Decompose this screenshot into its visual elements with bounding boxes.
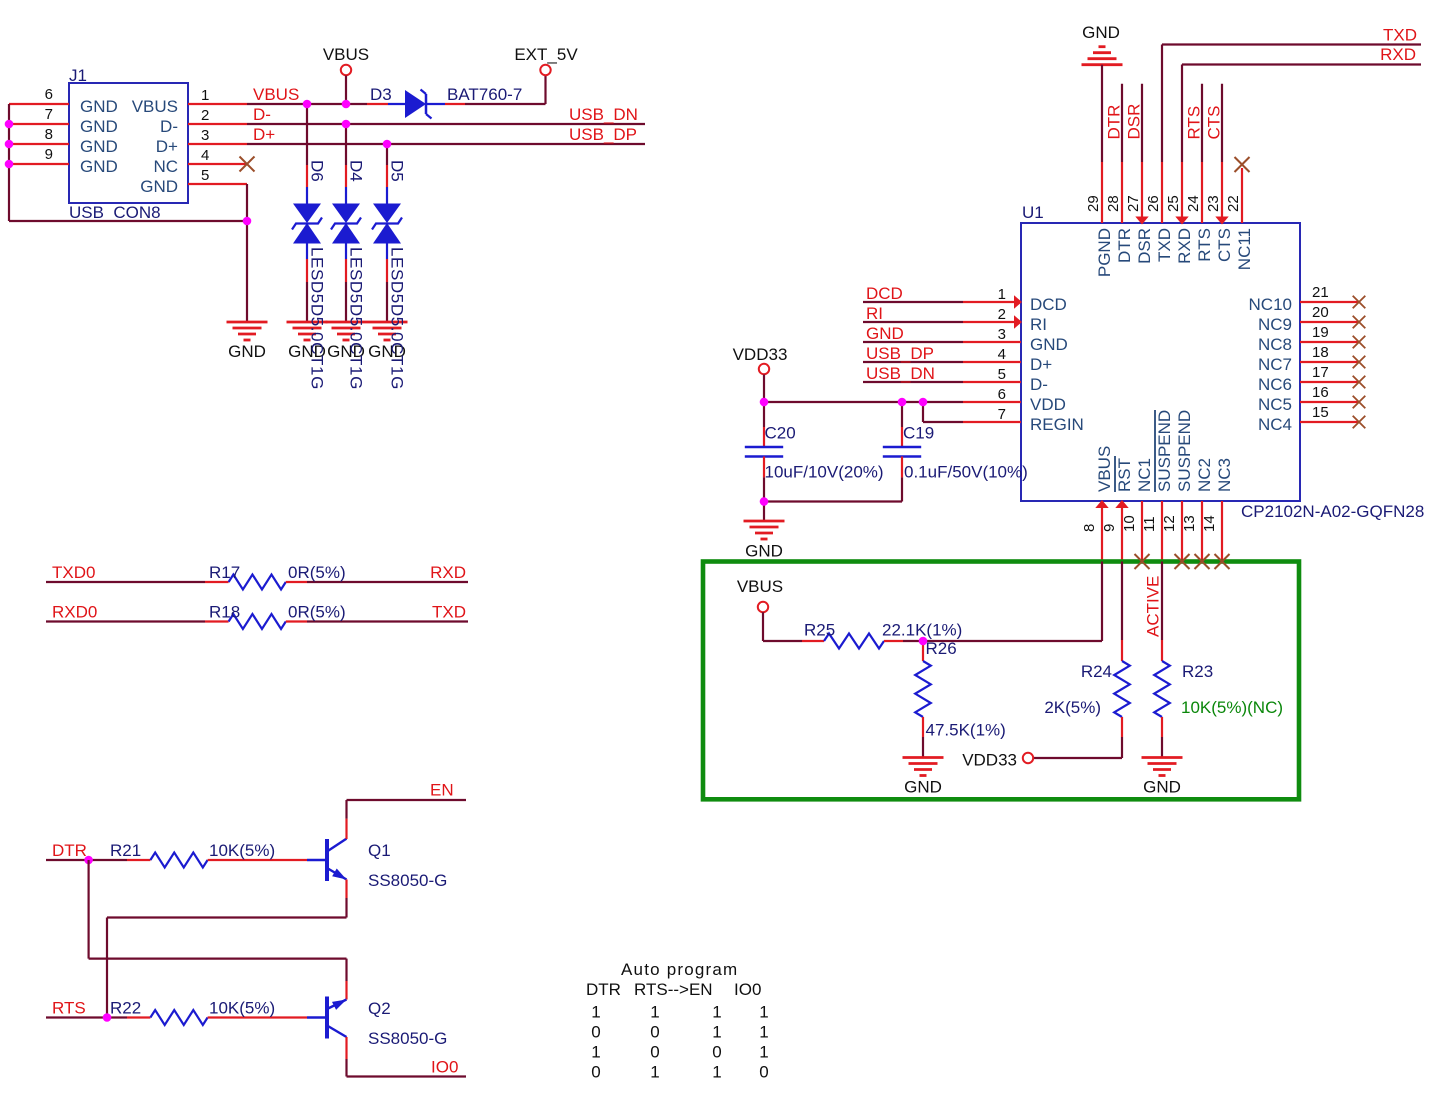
svg-text:21: 21 — [1312, 284, 1329, 301]
svg-text:0: 0 — [759, 1063, 768, 1082]
svg-text:NC7: NC7 — [1258, 355, 1292, 374]
svg-text:0R(5%): 0R(5%) — [288, 563, 346, 582]
svg-text:SUSPEND: SUSPEND — [1175, 410, 1194, 492]
svg-text:NC10: NC10 — [1249, 295, 1292, 314]
svg-text:TXD: TXD — [1155, 228, 1174, 262]
svg-text:GND: GND — [80, 137, 118, 156]
svg-text:D6: D6 — [308, 160, 327, 182]
svg-text:DTR: DTR — [52, 841, 87, 860]
svg-text:RST: RST — [1115, 458, 1134, 492]
svg-text:NC: NC — [153, 157, 178, 176]
svg-text:USB_DP: USB_DP — [569, 125, 637, 144]
svg-text:RTS: RTS — [1195, 228, 1214, 262]
svg-text:DCD: DCD — [866, 284, 903, 303]
svg-text:GND: GND — [745, 542, 783, 561]
svg-text:1: 1 — [998, 286, 1006, 303]
svg-text:RTS: RTS — [52, 999, 86, 1018]
svg-text:R25: R25 — [804, 620, 835, 639]
svg-text:LESD5D5.0CT1G: LESD5D5.0CT1G — [308, 247, 327, 390]
svg-text:NC1: NC1 — [1135, 458, 1154, 492]
svg-text:USB_DN: USB_DN — [866, 364, 935, 383]
svg-text:4: 4 — [998, 346, 1006, 363]
svg-text:D-: D- — [160, 117, 178, 136]
svg-text:20: 20 — [1312, 304, 1329, 321]
svg-text:1: 1 — [712, 1023, 721, 1042]
svg-text:SS8050-G: SS8050-G — [368, 1029, 447, 1048]
svg-text:1: 1 — [759, 1003, 768, 1022]
svg-text:C19: C19 — [903, 424, 934, 443]
svg-text:7: 7 — [998, 406, 1006, 423]
svg-text:GND: GND — [1030, 335, 1068, 354]
svg-text:28: 28 — [1105, 195, 1122, 212]
svg-text:8: 8 — [45, 126, 53, 143]
svg-text:18: 18 — [1312, 344, 1329, 361]
svg-text:VDD33: VDD33 — [962, 751, 1017, 770]
svg-text:1: 1 — [759, 1043, 768, 1062]
svg-text:VBUS: VBUS — [253, 85, 299, 104]
svg-text:D+: D+ — [253, 125, 275, 144]
svg-text:NC5: NC5 — [1258, 395, 1292, 414]
svg-text:6: 6 — [998, 386, 1006, 403]
svg-text:8: 8 — [1081, 524, 1098, 532]
svg-text:DTR: DTR — [586, 980, 621, 999]
svg-text:4: 4 — [201, 147, 209, 164]
svg-text:Q1: Q1 — [368, 841, 391, 860]
svg-text:VDD33: VDD33 — [733, 345, 788, 364]
svg-text:LESD5D5.0CT1G: LESD5D5.0CT1G — [388, 247, 407, 390]
svg-text:REGIN: REGIN — [1030, 415, 1084, 434]
svg-text:1: 1 — [759, 1023, 768, 1042]
svg-text:IO0: IO0 — [431, 1058, 458, 1077]
svg-text:1: 1 — [591, 1043, 600, 1062]
svg-text:EN: EN — [430, 781, 454, 800]
svg-text:47.5K(1%): 47.5K(1%) — [926, 720, 1006, 739]
svg-text:1: 1 — [650, 1063, 659, 1082]
svg-text:CTS: CTS — [1205, 106, 1224, 140]
svg-text:DSR: DSR — [1135, 228, 1154, 264]
svg-text:15: 15 — [1312, 404, 1329, 421]
svg-text:D+: D+ — [1030, 355, 1052, 374]
svg-text:GND: GND — [80, 117, 118, 136]
svg-text:D4: D4 — [347, 160, 366, 182]
svg-text:1: 1 — [201, 87, 209, 104]
svg-text:DTR: DTR — [1115, 228, 1134, 263]
svg-text:DTR: DTR — [1105, 105, 1124, 140]
svg-text:BAT760-7: BAT760-7 — [447, 85, 522, 104]
svg-text:17: 17 — [1312, 364, 1329, 381]
svg-text:RXD: RXD — [1380, 45, 1416, 64]
svg-text:DSR: DSR — [1125, 104, 1144, 140]
svg-text:5: 5 — [998, 366, 1006, 383]
svg-text:19: 19 — [1312, 324, 1329, 341]
svg-text:ACTIVE: ACTIVE — [1144, 576, 1163, 637]
svg-text:0: 0 — [591, 1063, 600, 1082]
svg-text:0.1uF/50V(10%): 0.1uF/50V(10%) — [904, 463, 1028, 482]
svg-text:NC2: NC2 — [1195, 458, 1214, 492]
svg-text:Q2: Q2 — [368, 999, 391, 1018]
svg-text:GND: GND — [1143, 778, 1181, 797]
svg-text:GND: GND — [140, 177, 178, 196]
svg-text:22.1K(1%): 22.1K(1%) — [882, 620, 962, 639]
svg-text:R21: R21 — [110, 841, 141, 860]
svg-text:VBUS: VBUS — [323, 45, 369, 64]
svg-text:NC4: NC4 — [1258, 415, 1292, 434]
svg-text:10K(5%): 10K(5%) — [209, 999, 275, 1018]
svg-text:11: 11 — [1141, 516, 1158, 532]
svg-text:14: 14 — [1201, 515, 1218, 532]
svg-text:3: 3 — [201, 127, 209, 144]
svg-text:PGND: PGND — [1095, 228, 1114, 277]
svg-text:J1: J1 — [69, 66, 87, 85]
svg-text:IO0: IO0 — [734, 980, 761, 999]
svg-text:USB_DP: USB_DP — [866, 344, 934, 363]
svg-text:RI: RI — [866, 304, 883, 323]
svg-text:0R(5%): 0R(5%) — [288, 603, 346, 622]
svg-text:6: 6 — [45, 86, 53, 103]
svg-text:10K(5%): 10K(5%) — [209, 841, 275, 860]
svg-text:NC6: NC6 — [1258, 375, 1292, 394]
svg-text:R17: R17 — [209, 563, 240, 582]
svg-text:GND: GND — [80, 97, 118, 116]
svg-text:0: 0 — [591, 1023, 600, 1042]
svg-text:VBUS: VBUS — [132, 97, 178, 116]
svg-text:29: 29 — [1085, 195, 1102, 212]
svg-text:RTS-->EN: RTS-->EN — [634, 980, 713, 999]
svg-text:1: 1 — [591, 1003, 600, 1022]
svg-text:GND: GND — [1082, 23, 1120, 42]
svg-text:R24: R24 — [1081, 662, 1112, 681]
svg-text:2: 2 — [998, 306, 1006, 323]
svg-text:NC11: NC11 — [1235, 228, 1254, 270]
svg-text:10K(5%)(NC): 10K(5%)(NC) — [1181, 698, 1283, 717]
svg-text:D+: D+ — [156, 137, 178, 156]
svg-text:VDD: VDD — [1030, 395, 1066, 414]
svg-text:C20: C20 — [765, 424, 796, 443]
svg-text:9: 9 — [45, 146, 53, 163]
svg-text:R18: R18 — [209, 603, 240, 622]
svg-text:1: 1 — [712, 1063, 721, 1082]
svg-text:1: 1 — [712, 1003, 721, 1022]
svg-text:5: 5 — [201, 167, 209, 184]
svg-text:9: 9 — [1101, 524, 1118, 532]
svg-text:2K(5%): 2K(5%) — [1044, 698, 1101, 717]
svg-text:23: 23 — [1205, 195, 1222, 212]
svg-text:25: 25 — [1165, 195, 1182, 212]
svg-text:D5: D5 — [388, 160, 407, 182]
svg-text:EXT_5V: EXT_5V — [514, 45, 578, 64]
svg-text:R23: R23 — [1182, 662, 1213, 681]
svg-text:RXD: RXD — [1175, 228, 1194, 264]
svg-text:GND: GND — [866, 324, 904, 343]
svg-text:RTS: RTS — [1185, 106, 1204, 140]
svg-text:CP2102N-A02-GQFN28: CP2102N-A02-GQFN28 — [1241, 502, 1424, 521]
svg-text:D-: D- — [253, 105, 271, 124]
svg-text:U1: U1 — [1022, 203, 1044, 222]
svg-text:D3: D3 — [370, 85, 392, 104]
svg-text:TXD: TXD — [432, 603, 466, 622]
svg-text:R26: R26 — [926, 639, 957, 658]
svg-text:22: 22 — [1225, 195, 1242, 212]
svg-text:0: 0 — [650, 1023, 659, 1042]
svg-text:TXD0: TXD0 — [52, 563, 95, 582]
svg-text:1: 1 — [650, 1003, 659, 1022]
svg-text:13: 13 — [1181, 515, 1198, 532]
svg-text:10uF/10V(20%): 10uF/10V(20%) — [765, 463, 884, 482]
svg-text:LESD5D5.0CT1G: LESD5D5.0CT1G — [347, 247, 366, 390]
svg-text:USB_CON8: USB_CON8 — [69, 203, 161, 222]
svg-text:RXD0: RXD0 — [52, 603, 97, 622]
svg-text:12: 12 — [1161, 515, 1178, 532]
svg-text:RXD: RXD — [430, 563, 466, 582]
svg-text:SUSPEND: SUSPEND — [1155, 410, 1174, 492]
svg-text:TXD: TXD — [1383, 26, 1417, 45]
svg-text:CTS: CTS — [1215, 228, 1234, 262]
svg-text:GND: GND — [904, 778, 942, 797]
svg-text:VBUS: VBUS — [1095, 446, 1114, 492]
svg-text:GND: GND — [228, 342, 266, 361]
svg-text:16: 16 — [1312, 384, 1329, 401]
svg-text:NC3: NC3 — [1215, 458, 1234, 492]
svg-text:GND: GND — [80, 157, 118, 176]
svg-text:SS8050-G: SS8050-G — [368, 871, 447, 890]
svg-text:RI: RI — [1030, 315, 1047, 334]
svg-text:NC9: NC9 — [1258, 315, 1292, 334]
svg-text:26: 26 — [1145, 195, 1162, 212]
svg-text:0: 0 — [650, 1043, 659, 1062]
svg-text:Auto program: Auto program — [621, 960, 738, 979]
svg-text:24: 24 — [1185, 195, 1202, 212]
svg-text:27: 27 — [1125, 195, 1142, 212]
svg-text:7: 7 — [45, 106, 53, 123]
svg-text:2: 2 — [201, 107, 209, 124]
svg-text:0: 0 — [712, 1043, 721, 1062]
svg-text:DCD: DCD — [1030, 295, 1067, 314]
svg-text:NC8: NC8 — [1258, 335, 1292, 354]
svg-text:10: 10 — [1121, 515, 1138, 532]
svg-text:R22: R22 — [110, 999, 141, 1018]
svg-text:D-: D- — [1030, 375, 1048, 394]
svg-text:3: 3 — [998, 326, 1006, 343]
svg-text:VBUS: VBUS — [737, 577, 783, 596]
svg-text:USB_DN: USB_DN — [569, 105, 638, 124]
